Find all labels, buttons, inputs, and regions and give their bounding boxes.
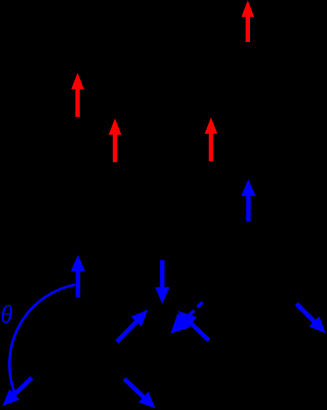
blue vector B2 (left, up) <box>71 255 85 298</box>
blue vector B5 (bottom-left, down-left) <box>3 376 34 406</box>
blue dashed vector B9: arrowhead <box>171 313 191 333</box>
red force arrow R3 (center-left, up) <box>109 118 122 162</box>
blue dashed vector B9 (down-left): dashed shaft <box>184 302 202 320</box>
red force arrow R4 (center-right, up) <box>205 117 218 161</box>
blue vector B7 (right edge, down-right) <box>295 302 326 333</box>
red force arrow R1 (top-right, up) <box>241 0 254 42</box>
angle arc for theta <box>9 285 75 392</box>
blue vector B3 (center, down) <box>155 260 169 304</box>
blue vector B1 (right, up) <box>241 179 255 221</box>
blue vector B4 (up-right diagonal) <box>115 310 148 344</box>
blue vector B6 (bottom-center, down-right) <box>123 377 156 408</box>
red force arrow R2 (upper-left, up) <box>71 73 84 117</box>
svg-text:θ: θ <box>1 302 13 329</box>
blue vector B8 (solid, up-left) <box>178 311 210 342</box>
